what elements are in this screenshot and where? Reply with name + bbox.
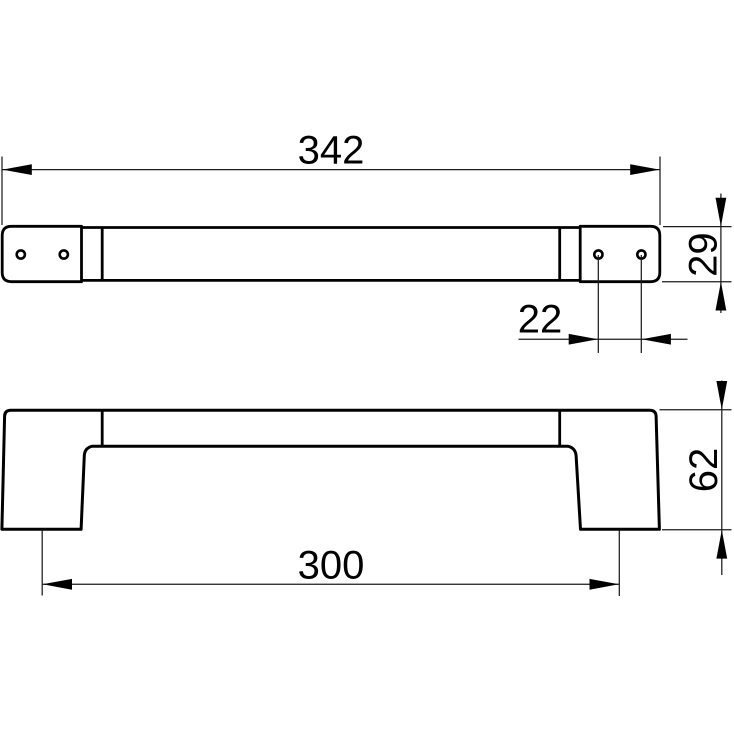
- extension line right: [618, 531, 620, 596]
- arrow left: [43, 579, 72, 590]
- arrow right: [590, 579, 619, 590]
- svg-text:342: 342: [298, 128, 365, 172]
- screw hole right plate 2: [637, 250, 645, 258]
- arrow bottom (pointing up): [716, 282, 727, 311]
- extension line left: [41, 531, 43, 596]
- arrow left: [2, 164, 31, 175]
- arrow bottom (pointing up): [716, 530, 727, 559]
- screw hole right plate 1: [594, 250, 602, 258]
- extension line left: [1, 157, 3, 226]
- dimension line: [42, 583, 619, 585]
- screw hole left plate 1: [17, 250, 25, 258]
- extension line hole A: [597, 255, 599, 353]
- right post junction line: [558, 410, 561, 446]
- extension line right: [659, 157, 661, 226]
- dimension line: [721, 381, 723, 576]
- dimension line: [720, 194, 722, 314]
- arrow top (pointing down): [716, 198, 727, 227]
- bar top edge: [82, 226, 581, 229]
- extension line hole B: [640, 255, 642, 353]
- svg-text:300: 300: [298, 543, 365, 587]
- svg-text:22: 22: [518, 297, 563, 341]
- svg-text:29: 29: [681, 232, 725, 277]
- arrow pointing left: [642, 334, 671, 345]
- extension line bottom: [662, 281, 732, 283]
- bar bottom edge: [82, 279, 581, 282]
- extension line top: [663, 226, 732, 228]
- svg-text:62: 62: [682, 448, 726, 493]
- handle silhouette: [2, 410, 660, 529]
- extension line top: [660, 409, 732, 411]
- dimension line: [2, 169, 660, 171]
- left junction line: [101, 228, 104, 281]
- right mounting plate: [580, 226, 660, 281]
- left mounting plate: [2, 226, 81, 281]
- arrow top (pointing down): [716, 381, 727, 410]
- dimension line: [519, 338, 688, 340]
- left post junction line: [101, 410, 104, 446]
- right junction line: [558, 228, 561, 281]
- arrow right: [630, 164, 659, 175]
- arrow pointing right: [569, 334, 598, 345]
- screw hole left plate 2: [60, 250, 68, 258]
- extension line bottom: [662, 529, 732, 531]
